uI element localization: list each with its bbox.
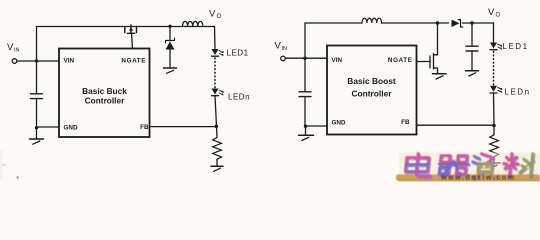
capacitor C3 input (right) xyxy=(299,58,311,126)
svg-text:LEDn: LEDn xyxy=(505,88,531,97)
node switch junction dot xyxy=(168,25,171,28)
ground (C2) xyxy=(466,71,479,76)
svg-text:O: O xyxy=(217,14,222,20)
node Vo label (left circuit) xyxy=(209,9,222,21)
LED D5 LED1 (right) xyxy=(490,43,502,50)
ground (below D1) xyxy=(164,68,177,73)
svg-text:FB: FB xyxy=(401,119,410,126)
ground (below R2) xyxy=(488,163,500,168)
node A junction dot on VIN wire xyxy=(35,59,38,62)
node drain junction dot xyxy=(436,21,439,24)
wire top rail (right) xyxy=(305,22,494,24)
ground (input, left) xyxy=(30,139,44,144)
svg-text:O: O xyxy=(496,12,501,18)
node output cap junction dot xyxy=(470,21,473,24)
svg-text:V: V xyxy=(275,40,282,51)
wire LEDn down to resistor (right) xyxy=(493,93,496,135)
node Vo label (right circuit) xyxy=(488,7,501,18)
diode D4 boost rectifier schottky xyxy=(452,20,463,27)
wire FB pin to LED string (right) xyxy=(417,124,495,126)
diode D1 freewheeling schottky xyxy=(166,26,175,67)
ground (input, right) xyxy=(299,135,314,140)
svg-text:NGATE: NGATE xyxy=(121,58,146,65)
svg-text:Basic Boost: Basic Boost xyxy=(347,76,396,86)
svg-text:www.dqzlw.com: www.dqzlw.com xyxy=(440,173,515,182)
wire junction up to top rail (right) xyxy=(304,23,306,58)
node VIN label (right) xyxy=(275,40,288,52)
wire LEDn down to resistor xyxy=(215,96,217,138)
resistor R2 sense (right) xyxy=(490,135,499,157)
label Basic Buck Controller xyxy=(82,86,127,106)
ground (below R1) xyxy=(211,166,223,171)
op-amp U2 Basic Boost Controller box xyxy=(327,46,417,135)
LED D2 LED1 xyxy=(212,49,224,56)
wire dotted LED string (right) xyxy=(493,52,495,86)
resistor R1 sense xyxy=(213,138,222,160)
svg-text:IN: IN xyxy=(14,48,20,54)
terminal VIN (right) xyxy=(281,56,286,61)
wire resistor to ground (right) xyxy=(493,157,495,163)
svg-text:V: V xyxy=(488,7,495,18)
node FB junction dot (right) xyxy=(492,124,496,128)
capacitor C2 output xyxy=(466,23,478,70)
char 器 xyxy=(439,156,467,175)
node B junction dot on VIN wire (right) xyxy=(303,57,306,60)
wire Vo corner down to LED string (right) xyxy=(493,23,495,42)
svg-text:GND: GND xyxy=(64,125,78,132)
node FB junction dot (left) xyxy=(215,125,219,129)
transistor Q1 (P-FET high side) xyxy=(125,25,137,33)
wire VIN terminal to controller xyxy=(17,60,59,62)
svg-text:IN: IN xyxy=(282,46,288,52)
svg-text:V: V xyxy=(7,42,14,53)
capacitor C1 input xyxy=(31,61,43,128)
svg-text:NGATE: NGATE xyxy=(388,57,413,64)
wire gate of Q1 to NGATE pin xyxy=(132,33,133,48)
scan speckles xyxy=(0,150,19,180)
svg-text:Controller: Controller xyxy=(351,88,392,98)
label Basic Boost Controller xyxy=(347,76,396,98)
svg-text:VIN: VIN xyxy=(64,58,75,65)
LED D3 LEDn xyxy=(212,89,224,96)
svg-text:Controller: Controller xyxy=(85,96,125,106)
transistor Q2 (N-FET low side) xyxy=(417,23,438,73)
wire VIN terminal to controller (right) xyxy=(286,57,328,59)
wire resistor to ground xyxy=(216,159,218,165)
node GND junction dot (right) xyxy=(304,125,307,128)
shadow layer xyxy=(406,155,535,179)
wire top rail xyxy=(37,26,215,28)
char 资 xyxy=(472,156,479,164)
wire down to input ground (right) xyxy=(305,126,307,135)
svg-text:LED1: LED1 xyxy=(227,49,249,58)
wire GND pin to input cap xyxy=(37,126,60,128)
wire GND pin to input cap (right) xyxy=(306,125,328,127)
inductor L1 xyxy=(183,21,203,26)
svg-text:FB: FB xyxy=(140,124,149,131)
svg-text:LEDn: LEDn xyxy=(228,93,250,102)
wire FB pin to LED string xyxy=(150,126,217,128)
wire down to input ground xyxy=(36,128,38,139)
wire dotted LED string xyxy=(214,58,216,88)
svg-text:V: V xyxy=(209,9,216,20)
terminal VIN (left) xyxy=(12,59,17,64)
watermark 电器资料 logo xyxy=(396,153,540,182)
svg-text:LED1: LED1 xyxy=(503,42,529,51)
node GND junction dot (left) xyxy=(35,126,38,129)
op-amp U1 Basic Buck Controller box xyxy=(59,49,150,138)
wire Vo corner down to LED string xyxy=(214,26,217,48)
wire junction up to top rail xyxy=(36,27,38,62)
svg-text:VIN: VIN xyxy=(332,57,343,64)
svg-text:GND: GND xyxy=(332,119,346,126)
node VIN label (left) xyxy=(7,42,20,54)
svg-text:Basic Buck: Basic Buck xyxy=(82,86,127,96)
inductor L2 xyxy=(362,18,382,23)
LED D6 LEDn (right) xyxy=(490,86,502,93)
ground (Q2 source) xyxy=(433,74,447,79)
char 料 xyxy=(502,154,518,177)
char 电 xyxy=(405,154,432,177)
